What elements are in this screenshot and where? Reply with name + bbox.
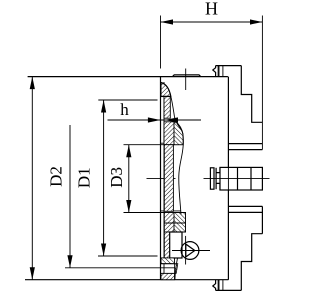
body back face inner line (163, 82, 165, 280)
bore top edge (161, 142, 184, 144)
main horizontal centerline left segment (147, 178, 176, 180)
bottom jaw clamping notch (213, 280, 216, 291)
dimension H left extension line (160, 16, 162, 69)
top jaw base band (228, 144, 262, 150)
svg-text:h: h (120, 100, 129, 119)
svg-text:D3: D3 (107, 167, 126, 188)
flange mid band (hatched) (164, 145, 173, 212)
dimension D1 bottom extension line (98, 255, 158, 257)
dimension H left arrow (161, 19, 174, 24)
dimension H right arrow (250, 19, 263, 24)
body chevron zone upper (hatched) (174, 122, 183, 144)
bottom middle band lines (161, 263, 175, 265)
dimension D3 bottom extension line (124, 212, 186, 214)
chevron block (hatched) (164, 213, 185, 233)
dimension D2 line (half) (69, 125, 71, 268)
bore bottom edge (161, 210, 182, 212)
bottom band right hatch patch (175, 264, 178, 274)
key socket block divider 1 (237, 167, 239, 190)
key socket notch bottom (216, 183, 220, 190)
body right face (227, 77, 229, 280)
bottom jaw stepped profile (241, 234, 262, 291)
boss tick centerline (185, 69, 187, 91)
pinion horizontal centerline (172, 250, 210, 252)
svg-text:H: H (205, 0, 218, 19)
bottom extension line / body bottom edge (25, 279, 228, 281)
main horizontal centerline right segment (204, 178, 270, 180)
top jaw clamping notch (213, 66, 216, 77)
key socket block (220, 167, 262, 190)
svg-text:D1: D1 (75, 167, 94, 188)
pinion cone triangle (186, 244, 195, 257)
key socket block divider 2 (250, 167, 252, 190)
pinion circle (181, 242, 199, 260)
dimension h right arrow (164, 117, 178, 122)
top extension line / body top edge (28, 76, 228, 78)
bottom jaw right edge (261, 206, 263, 233)
dimension H right extension line (261, 16, 263, 150)
dimension H line (161, 21, 263, 23)
top jaw stepped profile (241, 66, 262, 123)
body edge through socket (227, 167, 229, 190)
outer diameter dimension line (unlabeled) (31, 77, 33, 280)
flange upper lobe (hatched) (164, 122, 174, 145)
key socket notch top (216, 167, 220, 172)
bottom jaw base band (228, 206, 262, 212)
bottom block 1 (hatched) (161, 258, 175, 264)
dimension D2 extension line (65, 267, 175, 269)
section break wavy line (171, 96, 184, 214)
pinion vertical centerline (185, 236, 187, 265)
pinion housing white rectangle (170, 232, 182, 258)
svg-text:D2: D2 (47, 166, 66, 187)
flange strip below chevron (hatched) (164, 232, 173, 258)
bottom jaw grooves (217, 280, 219, 291)
flange neck (hatched) (164, 97, 170, 119)
chevron block mid line (164, 222, 185, 224)
top jaw grooves (217, 66, 219, 77)
bottom jaw bottom face (216, 289, 242, 291)
dimension D1 top extension line (98, 99, 157, 101)
key socket collar line (215, 168, 217, 189)
dimension D3 line (128, 145, 130, 213)
dimension D1 line (103, 100, 105, 256)
body left face (160, 77, 162, 280)
section break wavy line lower (175, 258, 178, 280)
dimension h left arrow (148, 117, 161, 122)
bottom block 2 (hatched) (161, 273, 175, 279)
key socket left bar (210, 168, 214, 189)
dimension h line (108, 119, 202, 121)
dimension D3 top extension line (124, 144, 184, 146)
flange top wedge (hatched) (161, 83, 171, 97)
top jaw top face (216, 65, 242, 67)
body top lip (173, 75, 201, 77)
